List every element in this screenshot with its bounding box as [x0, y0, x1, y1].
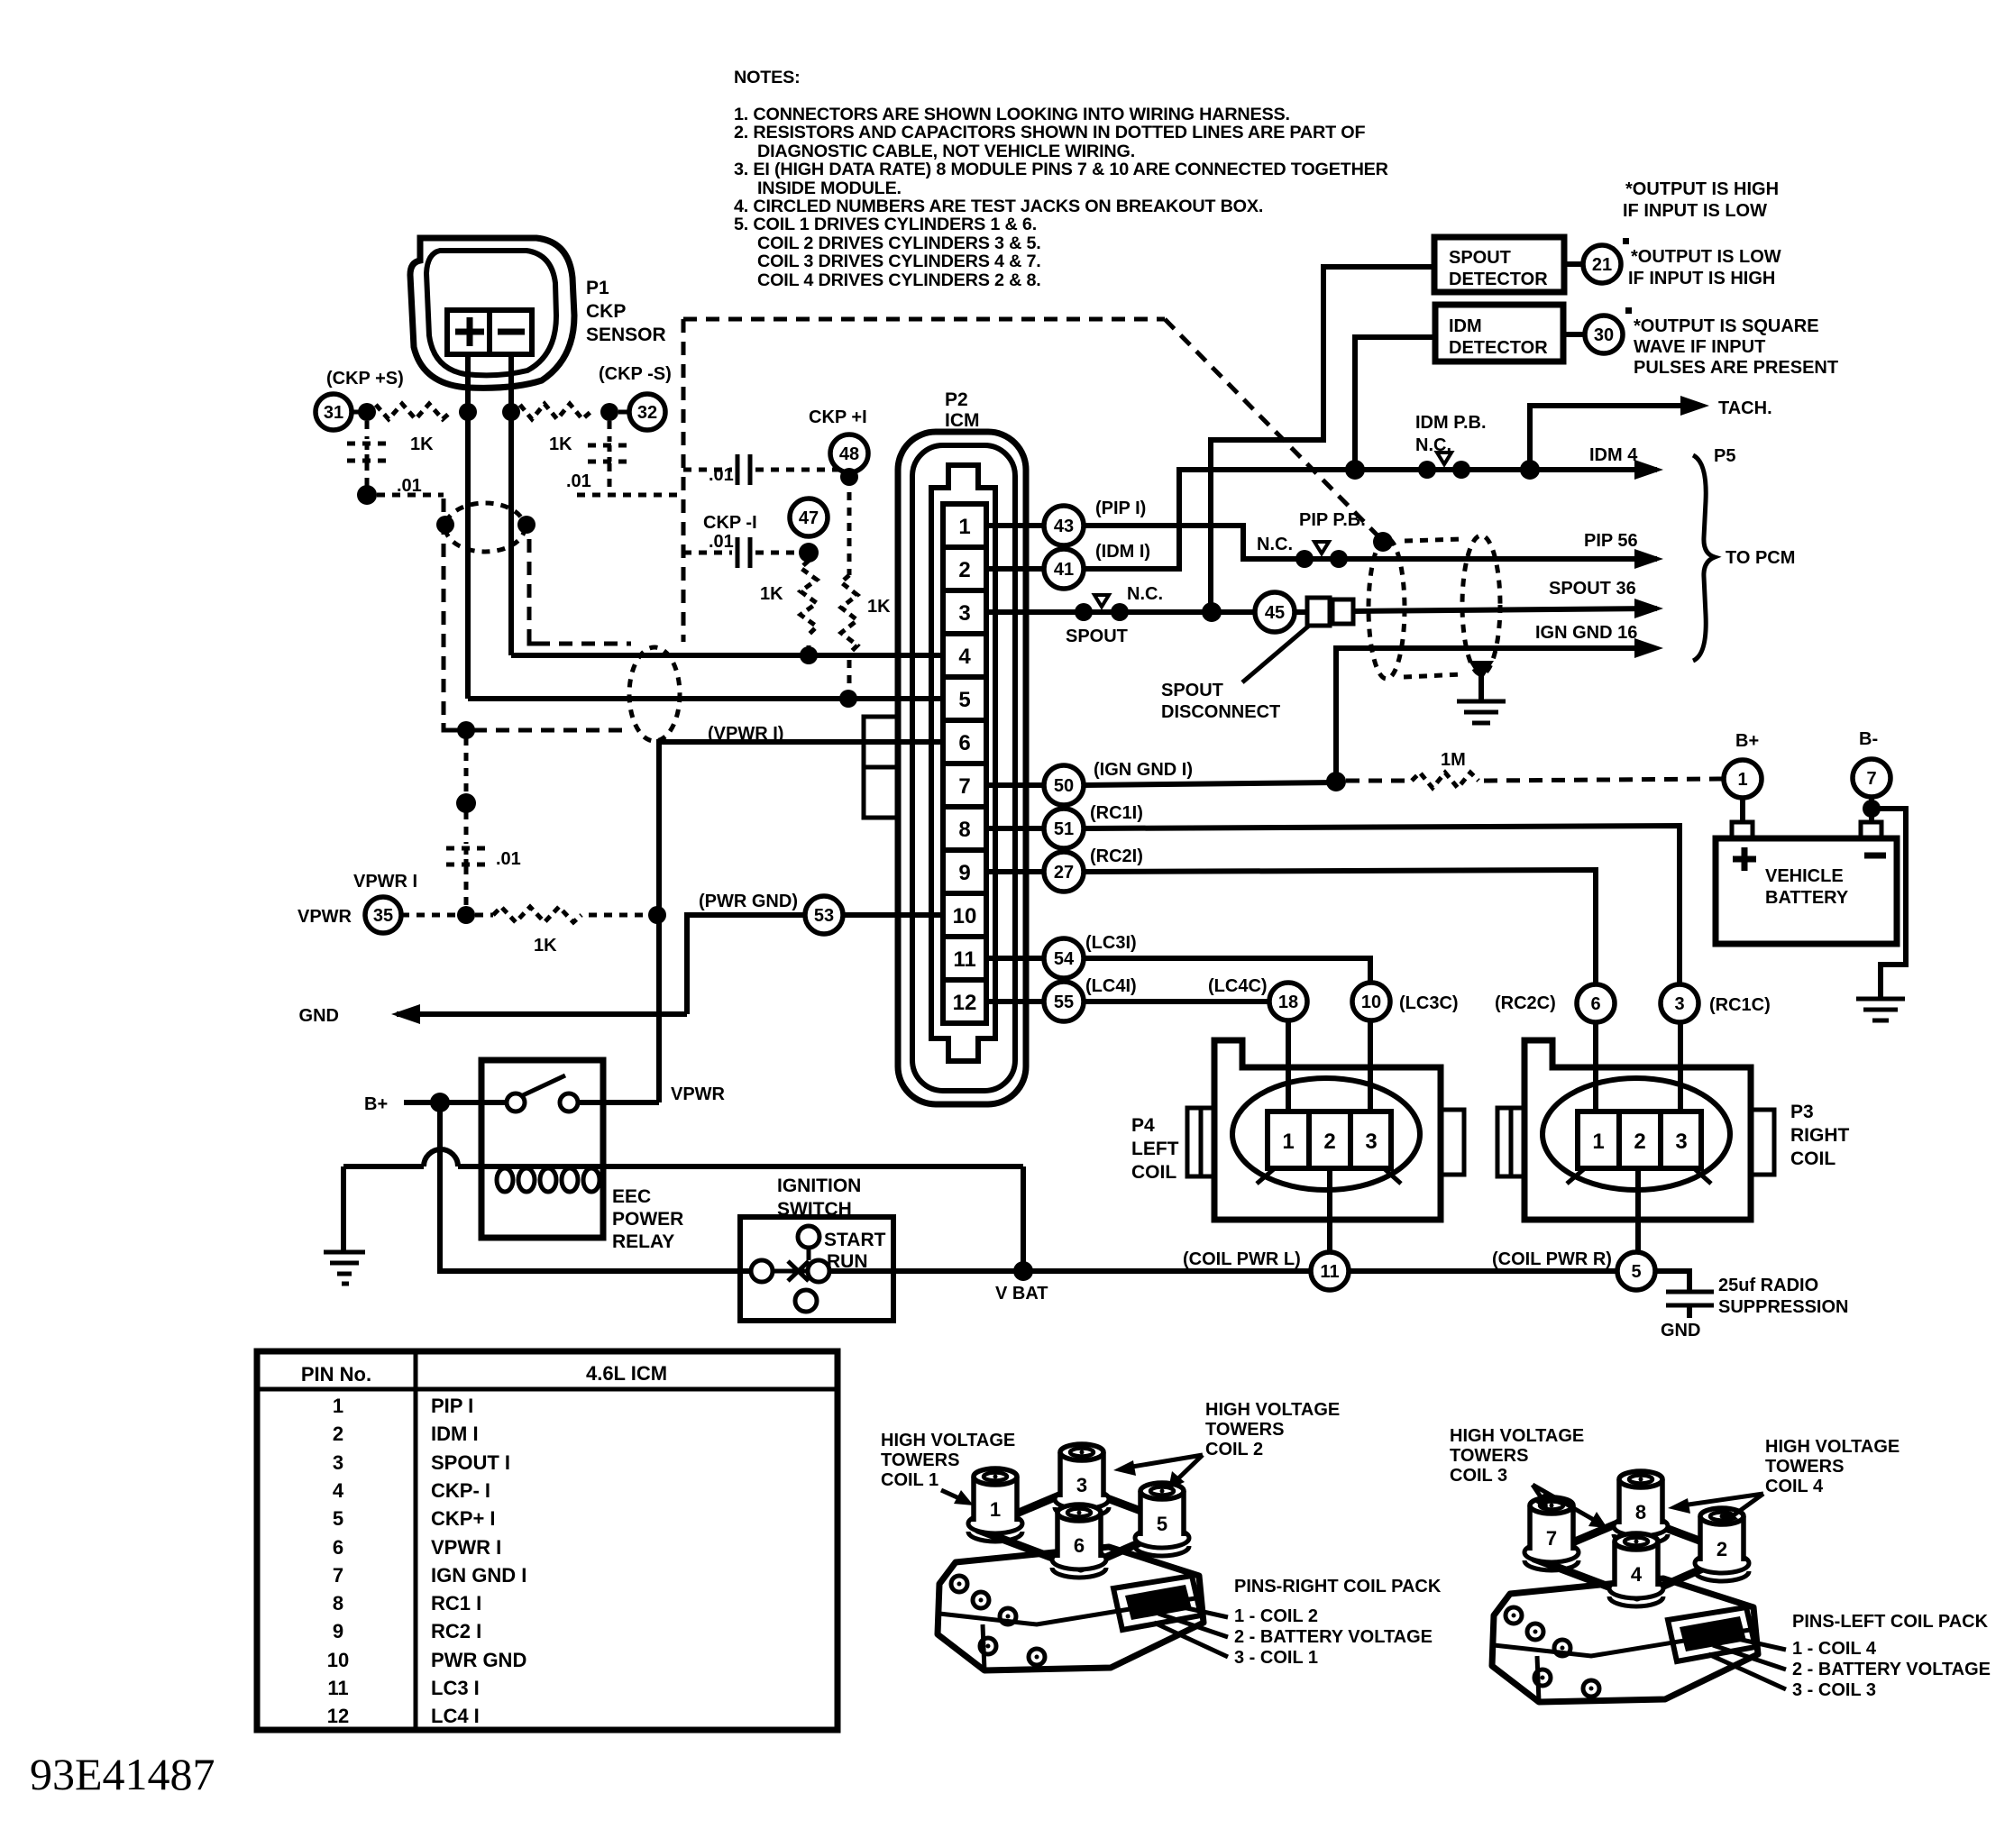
- right coil pack tower band: [978, 1487, 1179, 1569]
- wire CKP- sensor lead: [508, 354, 514, 655]
- svg-text:1 - COIL 2: 1 - COIL 2: [1234, 1606, 1318, 1626]
- svg-text:8: 8: [958, 818, 970, 842]
- svg-text:1: 1: [990, 1498, 1001, 1521]
- svg-text:COIL: COIL: [1790, 1148, 1835, 1169]
- wire LC3 to left coil: [1084, 958, 1370, 984]
- svg-text:1K: 1K: [549, 435, 572, 454]
- svg-text:(IGN GND I): (IGN GND I): [1094, 760, 1193, 780]
- svg-text:BATTERY: BATTERY: [1765, 888, 1849, 908]
- svg-text:B+: B+: [1735, 731, 1759, 751]
- svg-text:1: 1: [333, 1395, 343, 1417]
- svg-text:9: 9: [333, 1620, 343, 1642]
- P1 CKP sensor connector outline: [410, 238, 574, 388]
- output note for jack 21 high: [1623, 179, 1779, 221]
- coil tower 6: [1052, 1505, 1106, 1578]
- svg-text:(LC3C): (LC3C): [1399, 993, 1459, 1013]
- P2 pin 4 box: [943, 634, 986, 677]
- P2 pin 12 box: [943, 980, 986, 1023]
- svg-text:SPOUT 36: SPOUT 36: [1549, 579, 1636, 599]
- P2 pin 1 box: [943, 504, 986, 547]
- svg-text:7: 7: [1866, 769, 1876, 789]
- svg-text:INSIDE MODULE.: INSIDE MODULE.: [757, 178, 902, 198]
- svg-text:1K: 1K: [867, 597, 891, 617]
- svg-text:PIP I: PIP I: [431, 1395, 473, 1417]
- wire pin2 to jack 41: [986, 566, 1044, 572]
- svg-text:PIP P.B.: PIP P.B.: [1299, 510, 1366, 530]
- right coil pack screws: [951, 1576, 967, 1592]
- svg-text:IDM 4: IDM 4: [1589, 445, 1638, 465]
- svg-text:31: 31: [324, 403, 343, 423]
- test jack 55: [1044, 982, 1084, 1021]
- relay contact circles and blade: [507, 1093, 525, 1112]
- test jack 5: [1617, 1252, 1655, 1290]
- P4 pin row: [1268, 1112, 1391, 1168]
- svg-text:30: 30: [1594, 325, 1614, 345]
- svg-text:1: 1: [958, 515, 970, 539]
- svg-text:(LC4I): (LC4I): [1085, 976, 1137, 996]
- svg-text:P2: P2: [945, 389, 968, 410]
- wire pin9 to jack 27: [986, 869, 1044, 874]
- svg-text:EEC: EEC: [612, 1186, 651, 1207]
- relay coil wire with hop over B+ wire: [343, 1164, 424, 1169]
- left coil pack pin recess: [1668, 1607, 1755, 1661]
- svg-text:VEHICLE: VEHICLE: [1765, 866, 1844, 886]
- wire pin3 SPOUT: [986, 609, 1192, 615]
- battery positive post: [1732, 822, 1753, 838]
- wire jack5 to suppression cap: [1655, 1271, 1689, 1290]
- svg-text:.01: .01: [566, 471, 591, 491]
- svg-text:7: 7: [333, 1564, 343, 1587]
- svg-text:START: START: [824, 1230, 886, 1250]
- svg-text:55: 55: [1054, 993, 1074, 1012]
- P4 right tab: [1441, 1110, 1464, 1175]
- svg-text:RC2 I: RC2 I: [431, 1620, 481, 1642]
- wire IDM jog up to IDM line: [1084, 470, 1657, 569]
- svg-text:CKP -I: CKP -I: [703, 513, 757, 533]
- svg-text:4.6L ICM: 4.6L ICM: [586, 1362, 667, 1385]
- svg-text:10: 10: [1361, 993, 1381, 1012]
- svg-text:SPOUT: SPOUT: [1449, 248, 1511, 268]
- SPOUT N.C. contacts: [1075, 603, 1093, 621]
- svg-text:TACH.: TACH.: [1718, 398, 1772, 418]
- wire P3 pin3 to jack3: [1678, 1022, 1683, 1112]
- svg-text:5: 5: [958, 688, 970, 712]
- svg-text:6: 6: [1590, 994, 1600, 1014]
- svg-text:1. CONNECTORS ARE SHOWN LOOKIN: 1. CONNECTORS ARE SHOWN LOOKING INTO WIR…: [734, 105, 1290, 124]
- capacitor .01 on CKP+I branch: [683, 468, 732, 472]
- plus terminal: [455, 329, 484, 335]
- svg-text:VPWR I: VPWR I: [431, 1536, 501, 1559]
- svg-text:PWR GND: PWR GND: [431, 1649, 526, 1671]
- svg-text:COIL 3 DRIVES CYLINDERS 4 & 7.: COIL 3 DRIVES CYLINDERS 4 & 7.: [757, 252, 1041, 271]
- svg-text:LEFT: LEFT: [1131, 1139, 1179, 1159]
- wire relay coil right down to V BAT: [1021, 1166, 1026, 1271]
- high voltage towers coil 1 label: [881, 1431, 1015, 1490]
- svg-text:25uf RADIO: 25uf RADIO: [1718, 1276, 1818, 1295]
- P1 CKP sensor pin block: [447, 310, 532, 354]
- test jack 3: [1661, 984, 1698, 1022]
- svg-text:(PWR GND): (PWR GND): [699, 892, 798, 911]
- wire pin4 CKP- to ICM: [511, 653, 943, 658]
- SPOUT disconnect connector: [1295, 609, 1307, 615]
- svg-text:3: 3: [1076, 1474, 1087, 1496]
- wire idm detector down to idm line: [1355, 337, 1435, 470]
- coil tower 7: [1524, 1497, 1579, 1570]
- svg-text:47: 47: [799, 508, 819, 528]
- coil tower 8: [1614, 1471, 1668, 1544]
- test jack 47: [790, 499, 828, 536]
- shield ellipse pair to PCM: [1369, 538, 1405, 679]
- ignition switch contacts: [798, 1226, 819, 1248]
- svg-text:6: 6: [333, 1536, 343, 1559]
- svg-text:4: 4: [958, 645, 971, 669]
- test jack 35: [365, 897, 401, 933]
- left coil pack legend leaders: [1717, 1634, 1786, 1650]
- svg-text:N.C.: N.C.: [1415, 435, 1451, 455]
- svg-text:1 - COIL 4: 1 - COIL 4: [1792, 1639, 1877, 1659]
- svg-text:8: 8: [1635, 1501, 1646, 1523]
- svg-text:11: 11: [1320, 1262, 1339, 1282]
- SPOUT junction with detector line: [1192, 609, 1255, 615]
- wire pin12 to jack 55: [986, 999, 1044, 1004]
- test jack 18: [1269, 983, 1307, 1020]
- dashed cable boundary bottom edge: [451, 728, 626, 733]
- svg-text:DIAGNOSTIC CABLE, NOT VEHICLE: DIAGNOSTIC CABLE, NOT VEHICLE WIRING.: [757, 142, 1135, 161]
- test jack 32: [629, 394, 665, 430]
- svg-text:2: 2: [1716, 1538, 1727, 1560]
- svg-text:HIGH VOLTAGE: HIGH VOLTAGE: [1450, 1426, 1584, 1446]
- svg-text:10: 10: [953, 904, 977, 929]
- svg-text:12: 12: [327, 1705, 349, 1727]
- svg-text:SPOUT: SPOUT: [1161, 681, 1223, 700]
- P3 right tab: [1751, 1110, 1774, 1175]
- svg-text:35: 35: [373, 906, 393, 926]
- output note for jack 30 square wave: [1634, 316, 1838, 378]
- wire pin5 CKP+ to ICM: [468, 696, 943, 701]
- shield drain wire and ground: [1469, 661, 1494, 681]
- EEC POWER RELAY label: [612, 1186, 683, 1252]
- wire B+ into relay: [404, 1100, 508, 1105]
- spout detector box: [1434, 237, 1564, 292]
- resistor 1K CKP- wire to jack32: [502, 403, 520, 421]
- dashed link junction to cable boundary: [377, 493, 444, 498]
- svg-text:DETECTOR: DETECTOR: [1449, 338, 1548, 358]
- svg-text:RELAY: RELAY: [612, 1231, 674, 1252]
- left coil pack screws: [1506, 1607, 1522, 1624]
- P4 left tab: [1187, 1108, 1214, 1176]
- svg-text:*OUTPUT IS LOW: *OUTPUT IS LOW: [1631, 247, 1781, 267]
- notes text block: [734, 68, 1388, 290]
- P3 pin row: [1578, 1112, 1701, 1168]
- svg-text:COIL 4 DRIVES CYLINDERS 2 & 8.: COIL 4 DRIVES CYLINDERS 2 & 8.: [757, 270, 1041, 290]
- dashed shield ellipse on CKP sensor leads: [445, 503, 525, 552]
- svg-text:93E41487: 93E41487: [30, 1749, 215, 1799]
- IGN GND 16 wire to PCM: [1336, 648, 1652, 781]
- svg-text:11: 11: [953, 947, 975, 972]
- svg-text:.01: .01: [709, 465, 734, 485]
- svg-text:VPWR: VPWR: [671, 1084, 726, 1104]
- right coil pack base body: [938, 1547, 1204, 1670]
- dashed branch capacitor .01 above VPWR: [464, 737, 469, 795]
- svg-text:CKP+ I: CKP+ I: [431, 1507, 496, 1530]
- svg-text:P5: P5: [1714, 446, 1735, 466]
- svg-text:PIN No.: PIN No.: [301, 1363, 371, 1386]
- dashed link jack32 branch to cable boundary: [577, 493, 683, 498]
- wire P4 pin3 to jack10: [1368, 1020, 1373, 1112]
- svg-text:2: 2: [1323, 1130, 1335, 1154]
- ignition switch box: [740, 1217, 893, 1321]
- coil tower 3: [1055, 1444, 1109, 1517]
- svg-text:CKP- I: CKP- I: [431, 1479, 490, 1502]
- P2 ICM connector second shell: [912, 445, 1015, 1091]
- wire pin7 to jack 50: [986, 782, 1044, 788]
- test jack 43: [1044, 506, 1084, 545]
- svg-text:COIL 2: COIL 2: [1205, 1440, 1263, 1459]
- P3 ellipse: [1543, 1078, 1730, 1190]
- svg-text:B+: B+: [364, 1094, 388, 1114]
- svg-text:(LC4C): (LC4C): [1208, 976, 1268, 996]
- svg-text:(COIL PWR L): (COIL PWR L): [1183, 1249, 1301, 1269]
- idm detector box: [1435, 305, 1563, 361]
- wire pin1 to jack 43: [986, 523, 1044, 528]
- P2 ICM connector outer shell: [898, 432, 1026, 1104]
- svg-text:IGNITION: IGNITION: [777, 1176, 861, 1196]
- svg-text:3: 3: [1674, 994, 1684, 1014]
- svg-text:5: 5: [333, 1507, 343, 1530]
- svg-text:V BAT: V BAT: [995, 1284, 1048, 1304]
- svg-text:7: 7: [1546, 1527, 1557, 1550]
- svg-text:(RC1C): (RC1C): [1709, 995, 1771, 1015]
- test jack 45: [1255, 592, 1295, 632]
- dashed diagonal to PIP P.B.: [1165, 319, 1379, 537]
- P4 ellipse: [1232, 1078, 1420, 1190]
- wire jack 50 to junction: [1084, 782, 1336, 785]
- junction to TACH riser: [1520, 460, 1540, 480]
- IDM P.B. N.C. contacts: [1418, 461, 1436, 479]
- wire RC1 to right coil: [1084, 826, 1680, 984]
- P2 connector side tab: [864, 717, 899, 767]
- svg-text:NOTES:: NOTES:: [734, 68, 801, 87]
- svg-text:6: 6: [958, 731, 970, 755]
- dashed cable boundary top edge: [683, 317, 1165, 322]
- svg-text:IDM I: IDM I: [431, 1423, 479, 1445]
- svg-text:GND: GND: [299, 1006, 339, 1026]
- P2 pin 6 box: [943, 720, 986, 764]
- pin table: [257, 1351, 838, 1730]
- svg-text:27: 27: [1054, 863, 1074, 883]
- P2 ICM connector inner key shape: [931, 465, 995, 1061]
- wire spout detector to spout junction: [1211, 267, 1434, 612]
- GND arrow left: [397, 1011, 687, 1017]
- wire P3 pin1 to jack6: [1593, 1022, 1598, 1112]
- IGNITION SWITCH label: [777, 1176, 861, 1220]
- svg-text:LC4 I: LC4 I: [431, 1705, 480, 1727]
- P2 pin 3 box: [943, 590, 986, 634]
- ground symbol battery: [1856, 997, 1905, 1002]
- test jack 30: [1585, 316, 1623, 353]
- svg-text:PINS-LEFT COIL PACK: PINS-LEFT COIL PACK: [1792, 1612, 1989, 1632]
- wire idm detector to test jack 30: [1563, 332, 1585, 337]
- svg-text:(VPWR I): (VPWR I): [708, 724, 783, 744]
- test jack 31: [316, 394, 352, 430]
- svg-text:POWER: POWER: [612, 1209, 683, 1230]
- svg-text:(IDM I): (IDM I): [1095, 542, 1150, 562]
- svg-text:COIL 1: COIL 1: [881, 1470, 938, 1490]
- svg-text:.01: .01: [496, 849, 521, 869]
- svg-text:2: 2: [333, 1423, 343, 1445]
- IDM junction to detector: [1345, 460, 1365, 480]
- svg-text:*OUTPUT IS SQUARE: *OUTPUT IS SQUARE: [1634, 316, 1819, 336]
- svg-text:2: 2: [1634, 1130, 1645, 1154]
- wire to TACH: [1530, 406, 1698, 470]
- svg-text:COIL 2 DRIVES CYLINDERS 3 & 5.: COIL 2 DRIVES CYLINDERS 3 & 5.: [757, 233, 1041, 253]
- test jack 41: [1044, 549, 1084, 589]
- svg-text:IGN GND I: IGN GND I: [431, 1564, 526, 1587]
- svg-text:1K: 1K: [534, 936, 557, 956]
- svg-text:48: 48: [839, 444, 859, 464]
- svg-text:B-: B-: [1859, 729, 1878, 749]
- svg-text:2 - BATTERY VOLTAGE: 2 - BATTERY VOLTAGE: [1234, 1627, 1433, 1647]
- svg-text:43: 43: [1054, 517, 1074, 536]
- svg-text:1: 1: [1282, 1130, 1294, 1154]
- test jack 1 battery positive: [1724, 760, 1762, 798]
- svg-text:IDM: IDM: [1449, 316, 1482, 336]
- svg-text:(COIL PWR R): (COIL PWR R): [1492, 1249, 1612, 1269]
- svg-text:TO PCM: TO PCM: [1726, 548, 1795, 568]
- svg-text:COIL 3: COIL 3: [1450, 1466, 1507, 1486]
- svg-text:9: 9: [958, 861, 970, 885]
- svg-text:53: 53: [814, 906, 834, 926]
- dashed shield ellipse on CKP pair to ICM: [629, 647, 680, 741]
- svg-text:N.C.: N.C.: [1127, 584, 1163, 604]
- P2 pin 9 box: [943, 850, 986, 893]
- right coil pack pin recess: [1113, 1576, 1201, 1630]
- svg-text:10: 10: [327, 1649, 349, 1671]
- test jack 7 battery negative: [1853, 759, 1890, 797]
- svg-text:N.C.: N.C.: [1257, 535, 1293, 554]
- EEC power relay box: [481, 1060, 603, 1238]
- capacitor .01 on CKP-I branch: [683, 551, 732, 555]
- wire pin8 to jack 51: [986, 826, 1044, 831]
- svg-text:COIL: COIL: [1131, 1162, 1176, 1183]
- svg-text:(CKP +S): (CKP +S): [326, 369, 404, 389]
- svg-text:DISCONNECT: DISCONNECT: [1161, 702, 1280, 722]
- svg-text:12: 12: [953, 991, 977, 1015]
- svg-text:45: 45: [1265, 603, 1285, 623]
- svg-text:LC3 I: LC3 I: [431, 1677, 480, 1699]
- dashed VPWR line with 1K resistor: [401, 913, 458, 918]
- left coil pack base body: [1492, 1578, 1758, 1702]
- P3 label: [1790, 1102, 1850, 1169]
- test jack 6: [1577, 984, 1615, 1022]
- svg-text:TOWERS: TOWERS: [881, 1450, 959, 1470]
- svg-text:IDM P.B.: IDM P.B.: [1415, 413, 1487, 433]
- svg-text:HIGH VOLTAGE: HIGH VOLTAGE: [1205, 1400, 1340, 1420]
- svg-text:54: 54: [1054, 949, 1075, 969]
- test jack 53: [805, 896, 843, 934]
- resistor 1K jack31 to CKP+ wire: [352, 410, 360, 415]
- wire jack11 to jack5: [1349, 1268, 1617, 1274]
- output note for jack 21 low: [1628, 247, 1781, 288]
- wire ignition to V BAT junction: [829, 1268, 1023, 1274]
- P2 pin 11 box: [943, 937, 986, 980]
- P2 ICM label: [945, 389, 980, 431]
- svg-text:ICM: ICM: [945, 410, 980, 431]
- svg-text:*OUTPUT IS HIGH: *OUTPUT IS HIGH: [1625, 179, 1779, 199]
- svg-text:SENSOR: SENSOR: [586, 325, 666, 345]
- wire jack1 to battery post: [1740, 798, 1745, 822]
- wire P4 pin1 to jack18: [1286, 1020, 1291, 1112]
- svg-text:IF INPUT IS LOW: IF INPUT IS LOW: [1623, 201, 1767, 221]
- dashed cable boundary right edge: [682, 319, 686, 642]
- svg-text:3: 3: [1365, 1130, 1377, 1154]
- svg-text:18: 18: [1278, 993, 1298, 1012]
- svg-text:DETECTOR: DETECTOR: [1449, 270, 1548, 289]
- svg-text:11: 11: [327, 1677, 348, 1699]
- svg-text:IGN GND 16: IGN GND 16: [1535, 623, 1637, 643]
- test jack 11: [1311, 1252, 1349, 1290]
- svg-text:32: 32: [637, 403, 657, 423]
- svg-text:(CKP -S): (CKP -S): [599, 364, 672, 384]
- wire P3 pin2 down to jack5: [1635, 1168, 1641, 1252]
- right coil pack legend leaders: [1163, 1603, 1228, 1617]
- capacitor .01 below jack31 junction: [365, 421, 370, 439]
- P2 pin 2 box: [943, 547, 986, 590]
- svg-text:2. RESISTORS AND CAPACITORS S: 2. RESISTORS AND CAPACITORS SHOWN IN DOT…: [734, 123, 1365, 142]
- svg-text:2: 2: [958, 558, 970, 582]
- P2 pin 10 box: [943, 893, 986, 937]
- svg-text:P4: P4: [1131, 1115, 1155, 1136]
- svg-text:1M: 1M: [1441, 750, 1466, 770]
- svg-text:HIGH VOLTAGE: HIGH VOLTAGE: [1765, 1437, 1900, 1457]
- high voltage towers coil 4 label: [1765, 1437, 1900, 1496]
- svg-text:(LC3I): (LC3I): [1085, 933, 1137, 953]
- svg-text:7: 7: [958, 774, 970, 799]
- svg-text:51: 51: [1054, 819, 1074, 839]
- svg-text:1: 1: [1737, 770, 1747, 790]
- P1 CKP sensor inner outline: [426, 251, 556, 375]
- vehicle battery box: [1716, 838, 1897, 944]
- svg-text:PINS-RIGHT COIL PACK: PINS-RIGHT COIL PACK: [1234, 1577, 1442, 1596]
- P4 left coil connector body: [1214, 1040, 1441, 1220]
- wire CKP+ sensor lead: [465, 354, 471, 699]
- svg-text:5: 5: [1631, 1262, 1641, 1282]
- left coil pack tower band: [1534, 1516, 1735, 1597]
- coil tower 1: [968, 1468, 1022, 1542]
- minus terminal: [498, 329, 525, 335]
- svg-text:3 - COIL 3: 3 - COIL 3: [1792, 1680, 1876, 1700]
- P3 left tab: [1497, 1108, 1524, 1176]
- svg-text:(RC2C): (RC2C): [1495, 993, 1556, 1013]
- wire vbat to jack11: [1023, 1268, 1311, 1274]
- dashed cable boundary inner edge: [527, 539, 532, 638]
- coil tower 4: [1609, 1533, 1663, 1606]
- high voltage towers coil 3 label: [1450, 1426, 1584, 1486]
- svg-text:COIL 4: COIL 4: [1765, 1477, 1824, 1496]
- P2 pin 5 box: [943, 677, 986, 720]
- svg-text:41: 41: [1054, 560, 1074, 580]
- test jack 50: [1044, 765, 1084, 805]
- test jack 54: [1044, 938, 1084, 978]
- wire relay to VPWR riser: [578, 1100, 659, 1105]
- brace to PCM: [1693, 455, 1715, 661]
- svg-text:8: 8: [333, 1592, 343, 1615]
- svg-text:PIP 56: PIP 56: [1584, 531, 1638, 551]
- coil tower 5: [1135, 1483, 1189, 1556]
- svg-text:3 - COIL 1: 3 - COIL 1: [1234, 1648, 1318, 1668]
- svg-text:VPWR: VPWR: [298, 907, 352, 927]
- svg-text:CKP: CKP: [586, 301, 626, 322]
